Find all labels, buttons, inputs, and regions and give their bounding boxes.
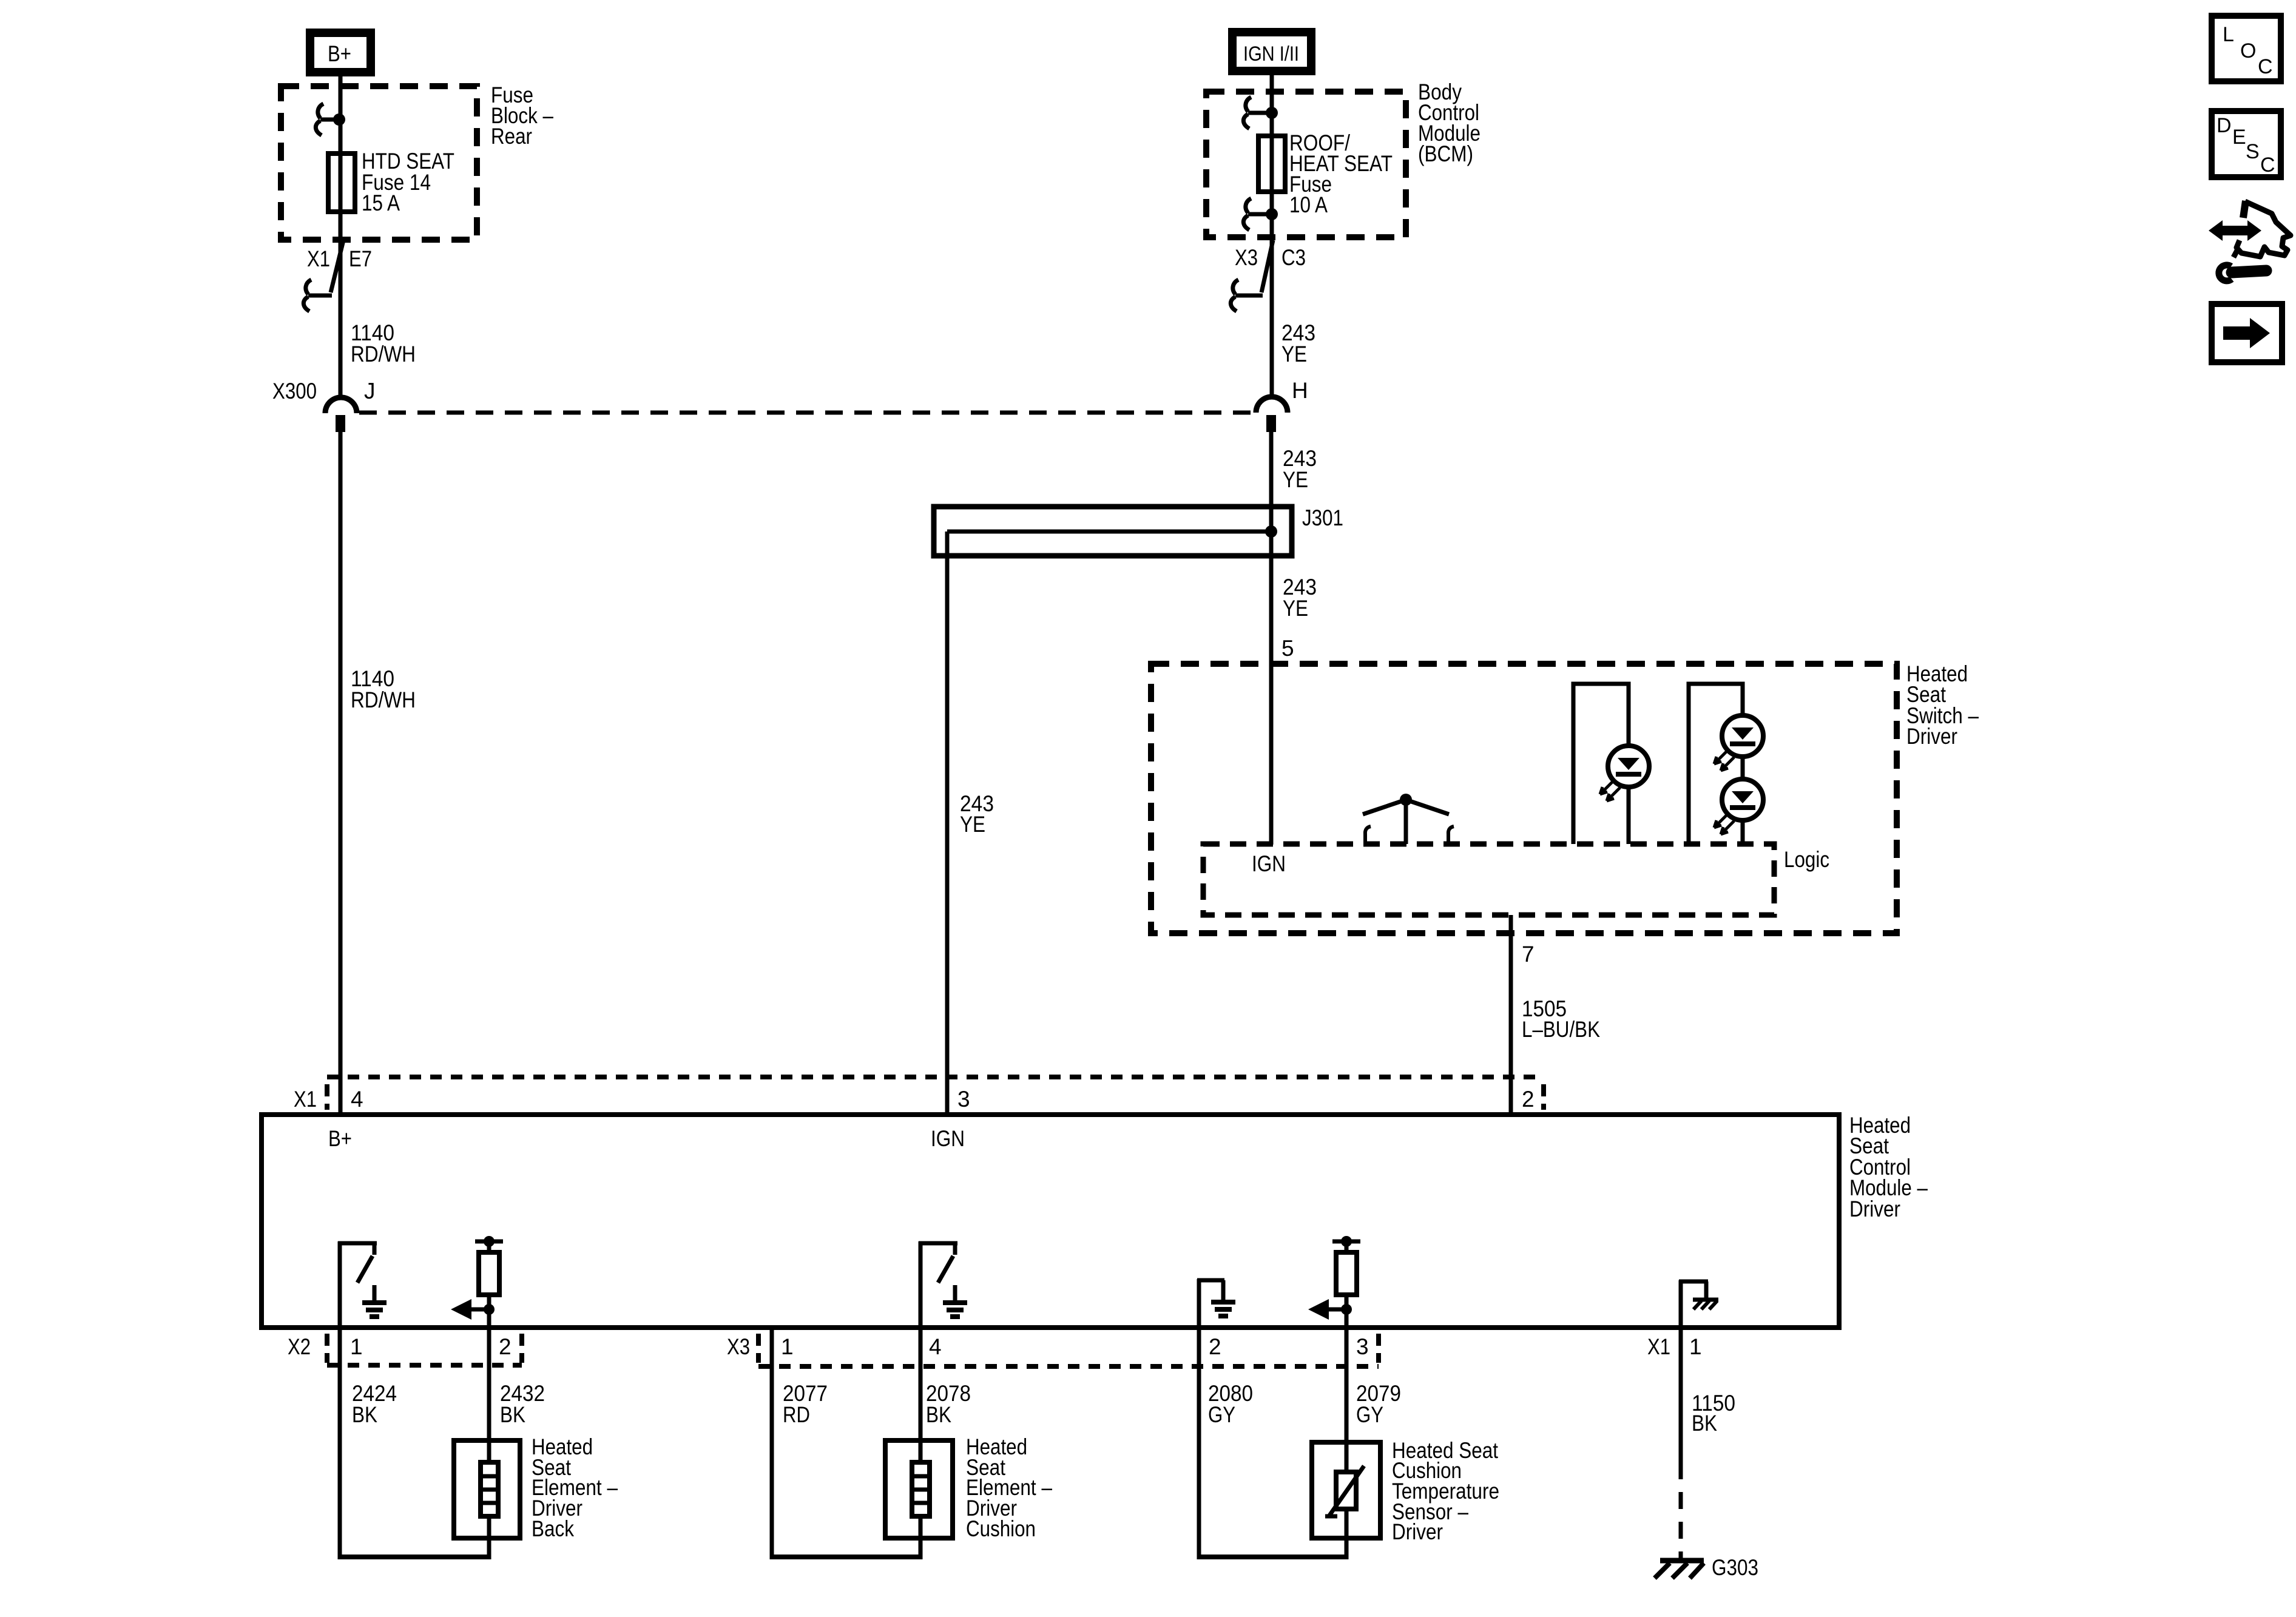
- svg-text:Rear: Rear: [491, 124, 532, 149]
- wire 2078 BK: [919, 1328, 923, 1462]
- svg-text:RD: RD: [783, 1402, 810, 1427]
- svg-text:X300: X300: [272, 379, 317, 403]
- connector X1/E7 pass-through (slash and clip): [303, 240, 343, 311]
- svg-text:BK: BK: [926, 1402, 951, 1427]
- BCM dashed enclosure: [1206, 92, 1406, 237]
- label 1505 L-BU/BK: [1522, 996, 1600, 1042]
- svg-text:H: H: [1292, 378, 1308, 403]
- svg-text:IGN: IGN: [931, 1126, 965, 1151]
- wire 2077 RD: [770, 1328, 774, 1559]
- label ROOF/HEAT SEAT Fuse 10 A: [1289, 130, 1393, 217]
- wire 1505 L-BU/BK: [1509, 915, 1513, 1115]
- labels X3 1 4 2 3: [727, 1334, 1369, 1359]
- wire B+ into fuse block: [339, 72, 343, 398]
- svg-text:(BCM): (BCM): [1418, 141, 1473, 166]
- power terminal B+: [310, 33, 371, 72]
- svg-text:Cushion: Cushion: [966, 1516, 1036, 1541]
- label 2080 GY: [1208, 1381, 1253, 1427]
- svg-text:Driver: Driver: [1849, 1197, 1900, 1221]
- label 2432 BK: [500, 1381, 545, 1427]
- svg-text:C: C: [2258, 55, 2273, 78]
- splice J301: [934, 507, 1292, 556]
- module internal switch (back element, pin X2-1): [338, 1241, 387, 1328]
- module internal driver output (pin X3-3): [1308, 1236, 1360, 1328]
- fuse HTD SEAT Fuse 14 15 A: [328, 154, 355, 212]
- connector X2 (module bottom, pins 1 2): [327, 1334, 522, 1365]
- in-line harness dashed link X300 to H: [359, 411, 1255, 415]
- svg-text:J301: J301: [1302, 505, 1343, 530]
- label Heated Seat Element - Driver Cushion: [966, 1434, 1052, 1541]
- wire 1150 BK: [1679, 1328, 1683, 1558]
- svg-text:X2: X2: [288, 1334, 311, 1359]
- label wire 1140 RD/WH lower: [351, 666, 416, 712]
- svg-text:BK: BK: [352, 1402, 377, 1427]
- svg-text:X3: X3: [1235, 245, 1258, 270]
- label Body Control Module (BCM): [1418, 79, 1481, 166]
- svg-text:BK: BK: [1692, 1411, 1717, 1436]
- module internal chassis ground (pin X1-1): [1679, 1280, 1718, 1328]
- label HTD SEAT Fuse 14 15 A: [362, 149, 454, 215]
- fuse ROOF/HEAT SEAT 10 A: [1258, 136, 1285, 192]
- svg-text:YE: YE: [1283, 467, 1308, 492]
- heated seat switch dashed enclosure: [1151, 664, 1897, 933]
- svg-text:4: 4: [929, 1334, 942, 1359]
- connector X3 (module bottom, pins 1 4 2 3): [758, 1334, 1379, 1366]
- svg-text:RD/WH: RD/WH: [351, 687, 416, 712]
- label Heated Seat Control Module - Driver: [1849, 1113, 1928, 1221]
- svg-text:X1: X1: [294, 1087, 317, 1112]
- svg-text:IGN: IGN: [1252, 851, 1286, 876]
- label 2078 BK: [926, 1381, 971, 1427]
- svg-text:GY: GY: [1208, 1402, 1235, 1427]
- wire 2079 GY: [1345, 1328, 1349, 1472]
- label 243 YE between H and J301: [1283, 446, 1317, 492]
- ground G303: [1655, 1561, 1704, 1578]
- svg-text:IGN I/II: IGN I/II: [1243, 42, 1299, 66]
- connector X1 (module top, pins 4 3 2): [327, 1077, 1544, 1110]
- svg-text:O: O: [2240, 39, 2256, 62]
- wire 243 YE from H through J301 to switch: [1269, 432, 1274, 845]
- svg-text:E7: E7: [349, 246, 372, 271]
- svg-text:GY: GY: [1356, 1402, 1383, 1427]
- svg-text:4: 4: [351, 1087, 363, 1112]
- svg-text:BK: BK: [500, 1402, 525, 1427]
- svg-text:B+: B+: [328, 1126, 352, 1151]
- wire 2424 BK: [338, 1328, 342, 1559]
- labels X1 4 3 2: [294, 1087, 1535, 1112]
- svg-text:2: 2: [1522, 1087, 1535, 1112]
- labels X1 E7: [307, 246, 372, 271]
- svg-text:2: 2: [499, 1334, 512, 1359]
- labels X300 J: [272, 379, 376, 403]
- svg-text:X1: X1: [1647, 1334, 1670, 1359]
- wire 1140 RD/WH lower: [339, 432, 343, 1115]
- terminal clip with junction (BCM bottom): [1243, 198, 1278, 230]
- label Heated Seat Element - Driver Back: [532, 1434, 618, 1541]
- svg-text:10 A: 10 A: [1289, 192, 1328, 217]
- label 2077 RD: [783, 1381, 828, 1427]
- terminal clip with junction (fuse block): [316, 104, 345, 135]
- power terminal IGN I/II: [1232, 32, 1311, 71]
- svg-text:S: S: [2246, 140, 2260, 163]
- svg-text:2: 2: [1209, 1334, 1221, 1359]
- heated seat element - driver cushion: [770, 1440, 953, 1559]
- label wire 243 YE above H: [1281, 320, 1315, 366]
- label 243 YE on branch wire: [960, 791, 994, 837]
- label wire 1140 RD/WH upper: [351, 320, 416, 366]
- label 2424 BK: [352, 1381, 397, 1427]
- icon arrow (next): [2212, 304, 2282, 362]
- rocker switch: [1363, 794, 1454, 844]
- wire IGN into BCM: [1270, 71, 1274, 397]
- heated seat element - driver back: [338, 1440, 520, 1559]
- svg-text:Driver: Driver: [1392, 1519, 1443, 1544]
- svg-text:5: 5: [1281, 636, 1294, 661]
- svg-text:E: E: [2232, 126, 2246, 149]
- label Heated Seat Cushion Temperature Sensor - Driver: [1392, 1438, 1499, 1544]
- icon LOC: [2212, 16, 2281, 81]
- module internal driver output (pin X2-2): [451, 1236, 503, 1328]
- svg-text:YE: YE: [960, 812, 985, 837]
- svg-text:YE: YE: [1283, 596, 1308, 621]
- inline connector H: [1256, 397, 1288, 432]
- fuse block - rear dashed enclosure: [281, 86, 477, 240]
- indicator LED 1: [1573, 684, 1649, 844]
- svg-text:3: 3: [957, 1087, 970, 1112]
- icon harness service (arrow, connector, wrench): [2209, 201, 2291, 281]
- module internal switch (cushion element, pin X3-4): [919, 1241, 967, 1328]
- svg-text:Back: Back: [532, 1516, 574, 1541]
- svg-text:X3: X3: [727, 1334, 750, 1359]
- svg-text:RD/WH: RD/WH: [351, 342, 416, 366]
- svg-text:B+: B+: [328, 41, 351, 66]
- svg-text:L–BU/BK: L–BU/BK: [1522, 1017, 1600, 1042]
- logic block dashed box: [1203, 844, 1774, 915]
- svg-text:7: 7: [1522, 942, 1535, 967]
- wire 2080 GY: [1197, 1328, 1201, 1559]
- svg-text:C: C: [2260, 154, 2275, 177]
- heated seat control module box: [262, 1115, 1839, 1328]
- svg-text:Logic: Logic: [1784, 847, 1829, 872]
- heated seat cushion temperature sensor - driver: [1197, 1442, 1380, 1559]
- icon DESC: [2212, 111, 2281, 177]
- svg-text:1: 1: [781, 1334, 794, 1359]
- svg-text:G303: G303: [1712, 1555, 1758, 1580]
- svg-text:Driver: Driver: [1906, 724, 1957, 749]
- wire 243 YE branch from J301 to module pin 3: [945, 532, 950, 1115]
- svg-text:X1: X1: [307, 246, 330, 271]
- svg-text:C3: C3: [1281, 245, 1306, 270]
- labels X3 C3: [1235, 245, 1306, 270]
- label 1150 BK: [1692, 1391, 1735, 1436]
- connector X3/C3 pass-through (slash and clip): [1231, 240, 1273, 311]
- terminal clip with junction (BCM top): [1243, 97, 1278, 129]
- labels X1 1 (bottom right): [1647, 1334, 1702, 1359]
- svg-text:1: 1: [1689, 1334, 1702, 1359]
- indicator LED pair 2: [1689, 684, 1763, 844]
- module internal sensor ground (pin X3-2): [1197, 1279, 1235, 1328]
- labels X2 1 2: [288, 1334, 512, 1359]
- label Heated Seat Switch - Driver: [1906, 661, 1979, 749]
- label Fuse Block - Rear: [491, 83, 553, 149]
- svg-text:3: 3: [1356, 1334, 1369, 1359]
- svg-text:15 A: 15 A: [362, 191, 400, 215]
- svg-text:J: J: [364, 379, 376, 403]
- svg-text:L: L: [2223, 23, 2234, 46]
- svg-text:1: 1: [350, 1334, 363, 1359]
- svg-text:D: D: [2217, 114, 2232, 137]
- label 2079 GY: [1356, 1381, 1401, 1427]
- svg-text:YE: YE: [1281, 342, 1307, 366]
- wire 2432 BK: [487, 1328, 491, 1462]
- inline connector X300 pin J: [325, 397, 357, 432]
- label 243 YE below J301: [1283, 575, 1317, 621]
